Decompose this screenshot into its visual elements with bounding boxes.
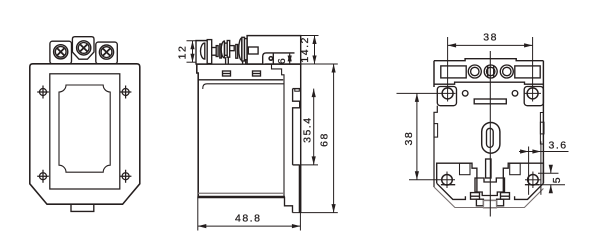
svg-text:68: 68 (319, 132, 331, 147)
flange small tab (295, 89, 300, 92)
dim 38 left (397, 93, 456, 179)
right edge step (540, 113, 543, 145)
terminal circle 1 (468, 65, 481, 78)
center tab shadow (483, 200, 496, 208)
body top edge with raised middle (434, 59, 543, 61)
dim 5 (538, 166, 565, 192)
screw 3 side view (236, 37, 247, 64)
svg-text:38: 38 (403, 131, 415, 146)
inner frame rect (50, 74, 120, 189)
cross mark bottom-right (120, 170, 132, 183)
48.8 extension right (299, 213, 301, 231)
small hole right (512, 91, 518, 97)
terminal rect right (515, 66, 540, 78)
left side bump (434, 124, 438, 138)
foot right (497, 199, 504, 206)
capsule outer (482, 123, 500, 154)
dim 3.6 (519, 147, 569, 195)
top section divider (434, 82, 543, 84)
hat block (475, 178, 505, 196)
svg-text:3.6: 3.6 (549, 139, 568, 151)
center tab top (483, 199, 496, 201)
bottom right step (285, 197, 293, 213)
case body left edge (197, 64, 198, 197)
svg-text:14.2: 14.2 (299, 36, 311, 62)
dim 68 (333, 64, 335, 213)
capsule inner (487, 128, 494, 147)
svg-text:6: 6 (276, 57, 288, 64)
dim 6 (289, 53, 291, 64)
svg-text:5: 5 (551, 176, 563, 183)
bottom pad left (437, 163, 477, 199)
dim 38 top (448, 37, 533, 102)
svg-text:35.4: 35.4 (302, 116, 314, 142)
flange top connect (293, 88, 301, 90)
screw 1 side view (201, 40, 219, 64)
screw middle (X head) (77, 41, 91, 55)
svg-text:12: 12 (177, 45, 189, 60)
body left lower edge (434, 106, 437, 187)
terminal block right (96, 42, 118, 64)
center slot thin rect (486, 159, 491, 178)
winglet right (501, 193, 510, 200)
top screw left (442, 88, 453, 99)
svg-text:38: 38 (483, 32, 498, 44)
screw pad top-right (524, 87, 543, 106)
body bottom thick line (197, 196, 285, 199)
body left edge (433, 61, 435, 87)
screw left (X head) (54, 45, 68, 59)
case top line (197, 63, 301, 65)
flange right edge (300, 64, 302, 213)
top screw right (525, 88, 542, 99)
flange narrow strip (298, 165, 300, 213)
top plate bottom line (198, 79, 283, 81)
cross mark top-right (120, 86, 132, 99)
bottom pad right (503, 163, 543, 199)
3.6 right extension (540, 141, 542, 195)
rear stepped edge (272, 64, 285, 197)
svg-text:48.8: 48.8 (235, 213, 261, 225)
screw pad top-left (437, 87, 456, 106)
winglet left (471, 193, 480, 200)
screw 2 side view (220, 41, 234, 65)
wide slot under screws (474, 99, 506, 104)
cross mark bottom-left (37, 170, 49, 183)
screw right (X head) (99, 45, 113, 59)
dim 48.8 (198, 197, 301, 231)
dim 12 (187, 41, 208, 62)
relay body outline (chamfered bottom corners) (30, 64, 140, 204)
flange foot bottom / 68 bottom extension (293, 212, 338, 214)
bottom tab (71, 204, 94, 211)
terminal block middle (raised boss) (72, 37, 94, 60)
68 top extension (301, 63, 338, 65)
small hole left (462, 91, 468, 97)
foot left (476, 199, 483, 206)
body seam line (198, 192, 284, 194)
dim 35.4 (299, 89, 318, 165)
mounting bracket with hole (263, 53, 295, 64)
flange wide bottom (293, 164, 300, 166)
slot 2 on plate (253, 71, 261, 76)
outer silhouette (gray) (434, 187, 543, 208)
flange left edge + notch (293, 89, 300, 165)
dim 14.2 (301, 36, 319, 65)
right side bump (540, 122, 544, 134)
slot 1 on plate (223, 71, 231, 76)
terminal block left (50, 41, 72, 64)
body right edge (542, 61, 544, 184)
cross mark top-left (37, 86, 49, 99)
screw 3 square head (248, 47, 258, 54)
center line (489, 51, 491, 217)
bottom screw right (525, 172, 541, 189)
terminal rect left (441, 66, 466, 78)
terminal circle 2 (center with slot) (484, 65, 497, 78)
inner body line below plate (203, 84, 284, 89)
bottom screw left (442, 172, 453, 189)
terminal circle 3 (500, 65, 513, 78)
rear terminal block (top right box) (247, 36, 301, 64)
terminal box 1 (196, 41, 207, 65)
inner panel with concave corners (59, 85, 110, 172)
